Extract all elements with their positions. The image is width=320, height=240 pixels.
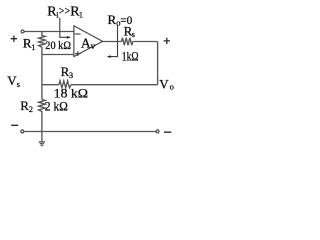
svg-text:o: o bbox=[170, 81, 174, 91]
node output terminal - (bottom-right circle) bbox=[156, 130, 159, 133]
svg-text:2 kΩ: 2 kΩ bbox=[45, 99, 68, 114]
svg-text:R: R bbox=[108, 12, 117, 27]
svg-text:1kΩ: 1kΩ bbox=[122, 48, 139, 63]
label Vs bbox=[7, 73, 20, 89]
svg-text:A: A bbox=[81, 35, 91, 50]
resistor R2 (vertical zigzag) bbox=[39, 100, 46, 132]
op-amp inverting input mark - bbox=[75, 33, 81, 35]
output polarity + (top-right) bbox=[164, 38, 170, 44]
resistor R1 (vertical zigzag) bbox=[39, 32, 46, 55]
output polarity - (bottom-right) bbox=[164, 131, 171, 133]
source polarity - (bottom-left) bbox=[11, 124, 18, 126]
resistor R3 (horizontal zigzag) bbox=[59, 81, 71, 88]
ground bbox=[41, 132, 43, 142]
pointer arrow for Ro bbox=[110, 25, 117, 56]
svg-text:20 kΩ: 20 kΩ bbox=[45, 40, 71, 52]
wire middle (to op-amp + input) bbox=[42, 54, 74, 56]
op-amp non-inverting input mark + bbox=[75, 51, 81, 56]
label Ri>>R1 bbox=[47, 5, 83, 20]
label R1 bbox=[23, 36, 36, 52]
svg-text:1: 1 bbox=[79, 9, 83, 19]
wire top rail bbox=[24, 31, 74, 33]
wire R3 right to output node bbox=[71, 84, 158, 86]
svg-text:3: 3 bbox=[69, 70, 73, 80]
node input terminal - (bottom-left circle) bbox=[21, 130, 24, 133]
wire bottom rail bbox=[24, 131, 156, 133]
source polarity + (top-left) bbox=[11, 36, 17, 42]
node input terminal + (top-left circle) bbox=[21, 30, 24, 33]
wire op-amp output bbox=[103, 41, 122, 43]
resistor Rs (horizontal zigzag) bbox=[122, 38, 133, 45]
svg-text:s: s bbox=[132, 29, 135, 39]
svg-text:v: v bbox=[91, 41, 96, 51]
svg-text:s: s bbox=[17, 79, 20, 89]
label R2 bbox=[20, 98, 33, 114]
svg-text:1: 1 bbox=[31, 42, 35, 52]
label R3 bbox=[61, 64, 74, 80]
wire node vertical x=41.9 bbox=[41, 55, 43, 100]
pointer arrow for Ri bbox=[60, 18, 68, 38]
label Vo bbox=[159, 77, 174, 92]
label Ro=0 bbox=[108, 12, 133, 27]
label Rs bbox=[124, 23, 135, 39]
wire Rs to corner bbox=[133, 41, 158, 43]
svg-text:>>: >> bbox=[59, 6, 70, 18]
svg-text:V: V bbox=[159, 77, 169, 92]
svg-text:2: 2 bbox=[29, 104, 33, 114]
op-amp U1 triangle bbox=[74, 26, 103, 57]
wire R3 left bbox=[42, 84, 59, 86]
wire output node vertical bbox=[157, 42, 159, 85]
label Av bbox=[81, 35, 96, 51]
